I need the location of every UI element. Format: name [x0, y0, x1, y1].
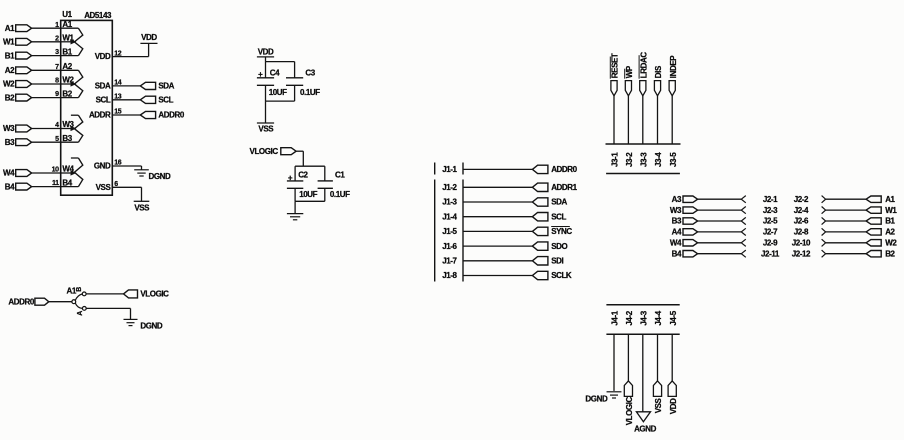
svg-text:DGND: DGND	[149, 172, 172, 181]
svg-text:J2-2: J2-2	[794, 195, 809, 204]
svg-text:VSS: VSS	[96, 183, 112, 192]
svg-text:J4-3: J4-3	[639, 310, 648, 325]
svg-text:C4: C4	[270, 68, 280, 77]
svg-text:AGND: AGND	[634, 425, 657, 434]
svg-text:W3: W3	[3, 124, 15, 133]
svg-text:10UF: 10UF	[269, 88, 287, 97]
svg-text:C2: C2	[298, 171, 308, 180]
svg-text:J2-5: J2-5	[763, 217, 778, 226]
svg-text:C1: C1	[335, 171, 345, 180]
svg-text:J1-2: J1-2	[442, 183, 457, 192]
svg-text:SDO: SDO	[551, 242, 567, 251]
svg-text:8: 8	[55, 78, 59, 85]
svg-text:J2-7: J2-7	[763, 228, 778, 237]
svg-text:A4: A4	[672, 228, 682, 237]
svg-text:0.1UF: 0.1UF	[300, 88, 320, 97]
svg-text:W1: W1	[885, 206, 897, 215]
svg-text:B1: B1	[885, 217, 895, 226]
svg-text:W4: W4	[670, 239, 682, 248]
svg-text:B3: B3	[672, 217, 682, 226]
svg-text:B4: B4	[5, 182, 15, 191]
svg-text:SDA: SDA	[95, 82, 111, 91]
svg-text:3: 3	[55, 49, 59, 56]
svg-text:A2: A2	[5, 66, 15, 75]
svg-text:+: +	[288, 173, 293, 182]
svg-text:B2: B2	[885, 249, 895, 258]
svg-text:SDA: SDA	[551, 198, 567, 207]
svg-text:4: 4	[55, 122, 59, 129]
svg-text:5: 5	[55, 136, 59, 143]
svg-text:GND: GND	[94, 162, 111, 171]
svg-text:A1: A1	[62, 20, 72, 29]
svg-text:10UF: 10UF	[299, 190, 317, 199]
svg-text:W1: W1	[3, 38, 15, 47]
svg-text:J1-4: J1-4	[442, 212, 457, 221]
svg-text:J1-1: J1-1	[442, 165, 457, 174]
svg-text:SDI: SDI	[551, 257, 563, 266]
svg-text:7: 7	[55, 64, 59, 71]
svg-text:DIS: DIS	[654, 65, 663, 78]
svg-text:J1-6: J1-6	[442, 242, 457, 251]
svg-text:J4-4: J4-4	[654, 310, 663, 325]
svg-text:B4: B4	[62, 178, 72, 187]
svg-text:SCL: SCL	[96, 95, 111, 104]
svg-text:J2-4: J2-4	[794, 206, 809, 215]
svg-text:J2-6: J2-6	[794, 217, 809, 226]
svg-text:J2-1: J2-1	[763, 195, 778, 204]
svg-text:2: 2	[55, 35, 59, 42]
svg-text:1: 1	[55, 22, 59, 29]
svg-text:RESET: RESET	[611, 53, 620, 78]
svg-text:ADDR0: ADDR0	[8, 297, 34, 306]
svg-text:J2-9: J2-9	[763, 239, 778, 248]
svg-text:J4-2: J4-2	[625, 310, 634, 325]
svg-text:J3-2: J3-2	[625, 152, 634, 167]
svg-text:VDD: VDD	[95, 52, 111, 61]
svg-text:SCL: SCL	[551, 212, 566, 221]
svg-text:A1: A1	[885, 195, 895, 204]
svg-text:VLOGIC: VLOGIC	[250, 147, 279, 156]
svg-text:LRDAC: LRDAC	[639, 52, 648, 79]
svg-text:J1-5: J1-5	[442, 227, 457, 236]
svg-text:VDD: VDD	[258, 47, 274, 56]
svg-text:J3-3: J3-3	[639, 152, 648, 167]
svg-text:J4-1: J4-1	[611, 310, 620, 325]
svg-text:ADDR1: ADDR1	[551, 183, 577, 192]
svg-text:SDA: SDA	[158, 82, 174, 91]
svg-text:ADDR0: ADDR0	[158, 111, 184, 120]
svg-text:J3-1: J3-1	[611, 152, 620, 167]
svg-text:DGND: DGND	[585, 394, 608, 403]
svg-text:B1: B1	[5, 51, 15, 60]
svg-text:SCL: SCL	[158, 96, 173, 105]
svg-text:W2: W2	[885, 239, 897, 248]
svg-text:AD5143: AD5143	[84, 11, 112, 20]
svg-text:WP: WP	[625, 65, 634, 78]
svg-text:A2: A2	[885, 228, 895, 237]
svg-text:J2-11: J2-11	[761, 249, 780, 258]
svg-text:J2-8: J2-8	[794, 228, 809, 237]
svg-text:VDD: VDD	[141, 33, 157, 42]
svg-text:VLOGIC: VLOGIC	[625, 397, 634, 426]
svg-text:VSS: VSS	[654, 397, 663, 413]
svg-text:J3-5: J3-5	[669, 152, 678, 167]
svg-text:+: +	[258, 70, 263, 79]
svg-text:A: A	[77, 311, 84, 316]
svg-text:W4: W4	[3, 169, 15, 178]
svg-text:U1: U1	[62, 10, 72, 19]
svg-text:SCLK: SCLK	[551, 271, 572, 280]
svg-text:DGND: DGND	[140, 322, 163, 331]
svg-text:9: 9	[55, 91, 59, 98]
svg-text:VDD: VDD	[669, 398, 678, 414]
svg-text:10: 10	[52, 167, 59, 174]
svg-text:A1: A1	[5, 24, 15, 33]
svg-text:J4-5: J4-5	[669, 310, 678, 325]
svg-text:ADDR0: ADDR0	[551, 165, 577, 174]
svg-text:VSS: VSS	[134, 203, 150, 212]
svg-text:J1-7: J1-7	[442, 257, 457, 266]
svg-text:ADDR: ADDR	[89, 111, 111, 120]
svg-text:B: B	[76, 287, 83, 292]
svg-text:A3: A3	[672, 195, 682, 204]
svg-text:W3: W3	[670, 206, 682, 215]
svg-text:11: 11	[52, 180, 59, 187]
svg-text:B3: B3	[5, 138, 15, 147]
svg-text:J2-10: J2-10	[792, 239, 811, 248]
svg-text:VSS: VSS	[258, 124, 274, 133]
svg-text:B2: B2	[5, 93, 15, 102]
svg-text:INDEP: INDEP	[669, 55, 678, 78]
svg-text:J2-3: J2-3	[763, 206, 778, 215]
svg-text:SYNC: SYNC	[551, 227, 572, 236]
svg-text:W2: W2	[3, 80, 15, 89]
svg-text:C3: C3	[305, 68, 315, 77]
svg-text:J2-12: J2-12	[792, 249, 811, 258]
svg-text:J1-8: J1-8	[442, 271, 457, 280]
svg-text:J1-3: J1-3	[442, 198, 457, 207]
svg-text:0.1UF: 0.1UF	[330, 190, 350, 199]
svg-text:VLOGIC: VLOGIC	[140, 290, 169, 299]
svg-text:B3: B3	[62, 134, 72, 143]
svg-text:J3-4: J3-4	[654, 152, 663, 167]
svg-text:B4: B4	[672, 249, 682, 258]
